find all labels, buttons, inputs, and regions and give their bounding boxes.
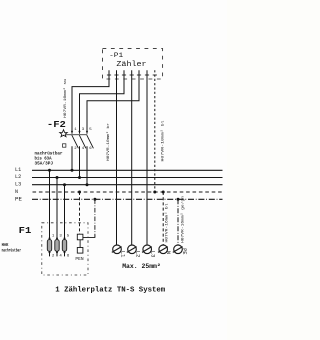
svg-text:Max. 25mm²: Max. 25mm² — [122, 263, 161, 270]
node N/meter — [153, 191, 156, 194]
node L3/pole3 — [86, 183, 89, 186]
bus L2 — [32, 177, 223, 179]
fuse F1.2 — [55, 237, 59, 253]
wire meter term5 -> F2 pole3 (L-shape) — [87, 70, 139, 133]
terminal PE — [173, 245, 183, 254]
bus labels — [15, 167, 22, 202]
terminal L2 — [127, 245, 137, 254]
wire F2 pole2 -> L2 bus — [79, 146, 81, 177]
wire PEN stub to riser — [83, 236, 95, 238]
svg-text:F1: F1 — [19, 225, 32, 236]
svg-text:-F2: -F2 — [47, 120, 66, 130]
node PE/terminal — [177, 198, 180, 201]
wire L1 bus -> fuse1 — [49, 170, 51, 238]
F2 mechanical linkage line — [66, 134, 87, 136]
terminal L1 — [112, 245, 122, 254]
F2 pole2 arrow contact — [78, 131, 80, 134]
wire F2 pole3 -> L3 bus — [86, 146, 88, 185]
svg-text:L3: L3 — [150, 251, 156, 258]
svg-text:nachrüstbar: nachrüstbar — [2, 248, 22, 253]
svg-text:H07VR-10mm² bl: H07VR-10mm² bl — [161, 121, 166, 162]
wire N bus -> PEN block (dashed) — [79, 192, 81, 234]
svg-text:H07VR-10mm² sw: H07VR-10mm² sw — [64, 78, 68, 118]
node N/terminal — [162, 191, 165, 194]
svg-text:Zähler: Zähler — [116, 61, 146, 69]
svg-text:35A/3PJ: 35A/3PJ — [35, 160, 54, 166]
wire N bus -> terminal N (dashed) — [162, 192, 164, 245]
terminal N — [158, 245, 168, 254]
PEN upper splice square — [77, 234, 83, 240]
svg-text:N: N — [165, 251, 171, 254]
wire PE bus -> terminal PE (dash-dot) — [177, 199, 179, 245]
svg-text:N: N — [15, 189, 18, 195]
F2 blade pole1 — [72, 135, 79, 148]
wire meter term2 -> terminal L1 — [116, 70, 118, 245]
fuse1 bottom stub — [49, 252, 51, 256]
F2 actuator square — [63, 144, 66, 147]
node L3/fuse3 — [63, 183, 66, 186]
wire meter term3 -> F2 pole2 (L-shape) — [80, 70, 125, 133]
svg-text:PE: PE — [181, 248, 187, 254]
node N/PEN — [78, 191, 81, 194]
svg-text:L2: L2 — [134, 251, 140, 258]
wire L3 bus -> fuse3 — [64, 185, 66, 239]
fuse pin numbers 1 3 5 — [52, 234, 70, 238]
bus L1 — [32, 169, 223, 171]
wire L2 bus -> fuse2 — [56, 178, 58, 239]
svg-text:L3: L3 — [15, 181, 21, 187]
meter P1 enclosure (dashed box) — [103, 49, 163, 79]
fuse2 bottom stub — [56, 252, 58, 256]
fuse F1.3 — [62, 237, 66, 253]
node PE/PEN — [93, 198, 96, 201]
svg-text:L1: L1 — [15, 167, 21, 173]
fuse3 bottom stub — [64, 252, 66, 256]
svg-text:PEN: PEN — [75, 258, 84, 262]
svg-text:1 Zählerplatz TN-S System: 1 Zählerplatz TN-S System — [55, 287, 165, 295]
svg-text:L1: L1 — [119, 251, 125, 258]
terminal L3 — [142, 245, 152, 254]
node L2/pole2 — [78, 176, 81, 179]
F2 star symbol — [60, 130, 68, 137]
fuse F1.1 — [47, 237, 51, 253]
svg-text:-P1: -P1 — [109, 52, 123, 60]
F2 note text — [35, 150, 63, 166]
label HAK nachrüstbar — [2, 243, 22, 253]
node L1/fuse1 — [48, 169, 51, 172]
F2 pin numbers 1 3 5 — [74, 128, 92, 132]
meter terminal ticks — [107, 74, 157, 76]
wire meter term4 -> terminal L2 — [131, 70, 133, 245]
PEN square connector — [79, 240, 81, 248]
wire meter term6 -> terminal L3 — [146, 70, 148, 245]
bus PE (dash-dot) — [32, 198, 223, 200]
bus L3 — [32, 184, 223, 186]
F2 pin numbers 2 4 6 — [74, 147, 92, 151]
node L2/fuse2 — [56, 176, 59, 179]
PEN lower splice square — [77, 248, 83, 254]
F2 blade pole2 — [79, 135, 86, 148]
F2 pole3 arrow contact — [86, 131, 88, 134]
svg-text:L2: L2 — [15, 174, 21, 180]
F2 blade pole3 — [87, 135, 94, 148]
svg-text:H07VR-16mm² ge/gn: H07VR-16mm² ge/gn — [180, 196, 185, 243]
bus N (dashed) — [33, 191, 223, 193]
wire PEN -> PE bus (dash-dot riser) — [94, 199, 96, 236]
wire meter N (dashed) -> N bus — [154, 70, 156, 192]
svg-text:H07VR-16mm² bl: H07VR-16mm² bl — [165, 204, 170, 243]
wire meter term1 -> F2 pole1 (L-shape) — [72, 70, 109, 133]
F1 enclosure (dash-dot box) — [42, 223, 88, 275]
svg-text:PE: PE — [15, 196, 22, 202]
svg-text:H07VR-10mm² br: H07VR-10mm² br — [106, 123, 111, 161]
node L1/pole1 — [71, 169, 74, 172]
fuse pin numbers 2 4 6 — [52, 255, 70, 259]
F2 pole1 arrow contact — [71, 131, 73, 134]
wire F2 pole1 -> L1 bus — [71, 146, 73, 170]
